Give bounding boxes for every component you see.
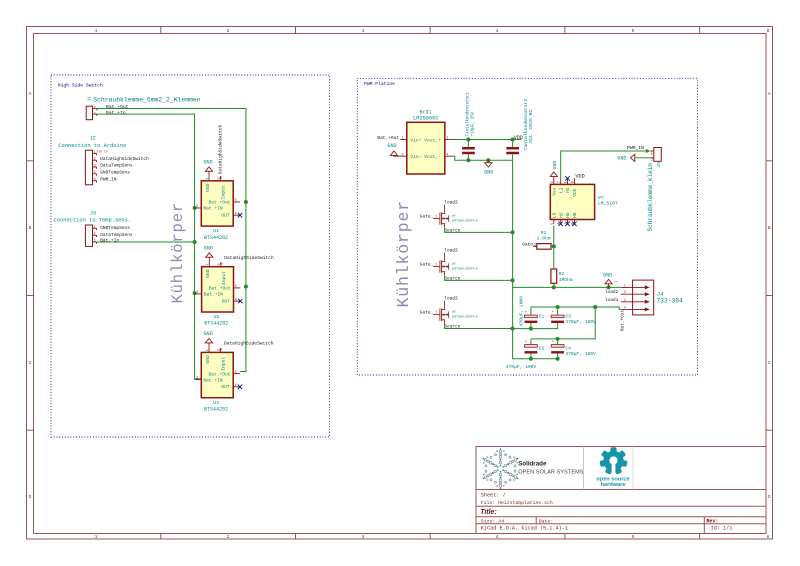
svg-text:Bat.+IN: Bat.+IN (203, 377, 223, 383)
junction dots caps (529, 327, 560, 361)
wire U5 source to rail (445, 277, 513, 281)
svg-text:SUP75N04_MOSFET-N: SUP75N04_MOSFET-N (452, 220, 478, 223)
svg-text:1: 1 (205, 264, 209, 266)
svg-text:D: D (29, 494, 32, 500)
svg-text:LI: LI (558, 187, 564, 193)
value BTS44202 U3 (204, 406, 228, 412)
connector J3 Connection to Temp.sens. (54, 210, 132, 246)
wire VDD rail top (452, 139, 522, 141)
label Bat.+Out (106, 104, 129, 110)
label load2 U5 (444, 248, 458, 254)
svg-text:4: 4 (94, 170, 96, 174)
svg-text:OPEN SOLAR SYSTEMS: OPEN SOLAR SYSTEMS (518, 469, 584, 475)
svg-text:GNDTempSens: GNDTempSens (100, 170, 130, 176)
no-connect U3 OUT (238, 385, 242, 389)
svg-text:HB: HB (572, 212, 578, 218)
svg-text:6: 6 (767, 534, 770, 540)
label Bat.+Out (vertical) (621, 310, 626, 331)
junction R1/LO (552, 244, 556, 248)
connector J2 Connection to Arduino (58, 135, 126, 184)
svg-text:1MOhm: 1MOhm (559, 277, 573, 283)
label DataHighSideSwitch U1 (218, 125, 224, 179)
svg-text:J3: J3 (90, 210, 96, 216)
svg-text:OUT: OUT (221, 213, 230, 219)
svg-text:5: 5 (632, 28, 635, 34)
svg-text:4: 4 (235, 297, 237, 301)
svg-text:2: 2 (219, 348, 223, 350)
svg-text:LM_5107: LM_5107 (598, 201, 618, 207)
svg-text:load2: load2 (605, 289, 619, 295)
no-connect U7 HS HO HB (559, 222, 577, 226)
svg-text:2: 2 (227, 534, 230, 540)
label GNDTempSens J3 (100, 225, 130, 231)
svg-text:2: 2 (94, 105, 96, 109)
svg-text:GND: GND (204, 160, 213, 166)
svg-text:Connection to Arduino: Connection to Arduino (58, 143, 126, 149)
transistor U5 SUP75N04_MOSFET-N (433, 253, 478, 277)
svg-text:Connection to Temp.sens.: Connection to Temp.sens. (54, 217, 132, 223)
svg-text:3: 3 (94, 238, 96, 242)
label DataHighSideSwitch U2 (220, 255, 275, 265)
svg-text:Gate_: Gate_ (420, 213, 434, 219)
reference U1 (213, 228, 219, 234)
svg-text:1: 1 (435, 263, 437, 267)
svg-text:4: 4 (235, 383, 237, 387)
label Source U6 (444, 324, 461, 330)
svg-text:GND: GND (205, 183, 211, 192)
value BTS44202 U1 (204, 235, 228, 241)
wire regulator return (452, 156, 513, 160)
svg-text:5: 5 (235, 198, 237, 202)
svg-text:D: D (768, 494, 771, 500)
svg-text:HS: HS (558, 212, 564, 218)
label Bat.+In J3 (100, 238, 119, 244)
label DataTempSens J2 (100, 163, 133, 169)
power GND U2 (204, 245, 213, 262)
label Gate_ U4 (420, 213, 434, 219)
svg-text:Vin+ Vout_+: Vin+ Vout_+ (410, 137, 441, 143)
junction dots Bat.+Out rail (556, 305, 598, 309)
svg-text:3: 3 (362, 534, 365, 540)
connector J4 733-364 (621, 280, 654, 315)
power GND J5 (617, 154, 650, 161)
svg-text:4: 4 (496, 534, 499, 540)
svg-text:2: 2 (94, 232, 96, 236)
svg-text:GND: GND (205, 355, 211, 364)
svg-text:BTS44202: BTS44202 (204, 321, 228, 327)
svg-text:1: 1 (402, 136, 404, 140)
wire C1 C3 bottom rail (513, 328, 558, 330)
svg-text:Bat.+Out: Bat.+Out (208, 371, 230, 377)
IC U1 BTS44202 (195, 176, 240, 226)
reference U7 (598, 195, 604, 201)
svg-text:Input: Input (221, 357, 227, 371)
svg-text:Bat.+In: Bat.+In (106, 110, 126, 116)
label load2 U6 (444, 296, 458, 302)
svg-text:C4: C4 (565, 345, 571, 351)
svg-text:1: 1 (614, 281, 618, 283)
label Gate_ U5 (420, 261, 434, 267)
svg-text:5: 5 (94, 177, 96, 181)
svg-text:5: 5 (235, 370, 237, 374)
svg-text:1.0hm: 1.0hm (537, 235, 551, 241)
svg-text:Bat.+Out: Bat.+Out (377, 135, 399, 141)
svg-text:PWM_IN: PWM_IN (627, 145, 644, 151)
svg-text:2: 2 (94, 157, 96, 161)
junction dots left (193, 200, 248, 295)
svg-text:U5: U5 (452, 263, 456, 266)
svg-text:3: 3 (196, 204, 198, 208)
svg-text:load2: load2 (444, 248, 458, 254)
svg-text:Tantalkondensator2: Tantalkondensator2 (523, 99, 529, 151)
svg-text:GNDTempSens: GNDTempSens (100, 225, 130, 231)
svg-text:A: A (768, 91, 771, 97)
label PWM_IN J2 (100, 176, 117, 182)
svg-text:4: 4 (446, 152, 448, 156)
svg-text:Gate_: Gate_ (522, 241, 536, 247)
svg-text:GND: GND (387, 143, 396, 149)
value 733-364 (656, 298, 683, 305)
svg-text:1: 1 (624, 283, 626, 287)
svg-text:JG3. 1026 B2: JG3. 1026 B2 (528, 109, 534, 144)
svg-text:4: 4 (496, 28, 499, 34)
svg-text:1: 1 (94, 150, 96, 154)
IC U3 BTS44202 (195, 348, 240, 398)
no-connect U7 HI (565, 176, 569, 180)
svg-text:U6: U6 (452, 311, 456, 314)
wire U6 source to rail (445, 325, 513, 329)
svg-text:Rev:: Rev: (706, 519, 718, 525)
svg-text:load2: load2 (444, 296, 458, 302)
svg-text:1: 1 (651, 152, 653, 156)
capacitor C1 470uF 100V (525, 307, 538, 329)
value C1 470µF,100V vertical (518, 296, 524, 327)
svg-text:3: 3 (402, 152, 404, 156)
wire Bat.+In net (97, 114, 201, 379)
svg-text:DataTempSens: DataTempSens (100, 232, 133, 238)
reference J5 (656, 162, 662, 168)
svg-text:A: A (29, 91, 32, 97)
svg-text:BTS44202: BTS44202 (204, 406, 228, 412)
svg-text:3: 3 (196, 290, 198, 294)
svg-text:Input: Input (221, 271, 227, 285)
resistor R1 1.0hm (533, 230, 554, 249)
sheet PWM Platine (357, 78, 697, 375)
svg-text:1: 1 (94, 111, 96, 115)
hierarchical pin PWM_IN arrow (646, 149, 650, 153)
resistor R2 1MOhm (551, 269, 573, 287)
svg-text:Bat.+Out: Bat.+Out (208, 200, 230, 206)
svg-text:R2: R2 (559, 271, 565, 277)
transistor U6 SUP75N04_MOSFET-N (433, 301, 478, 325)
power GND U3 (204, 331, 213, 348)
svg-text:Kühlkörper: Kühlkörper (394, 200, 413, 308)
svg-text:Date:: Date: (539, 519, 554, 525)
svg-text:VDD: VDD (572, 188, 578, 197)
value BTS44202 U2 (204, 321, 228, 327)
text Kühlkörper (right heatsink) (394, 200, 413, 308)
wire Bat.+Out to J4 pin4 (531, 307, 621, 309)
svg-text:J2: J2 (90, 135, 96, 141)
label load1 J4 (605, 297, 619, 303)
label VDD (top) (514, 135, 523, 141)
svg-text:470µF, 100V: 470µF, 100V (506, 364, 537, 370)
svg-text:Schraubklemme_klein: Schraubklemme_klein (647, 163, 654, 232)
junction U4 source (511, 230, 515, 234)
svg-text:6: 6 (767, 28, 770, 34)
svg-text:GND: GND (204, 245, 213, 251)
svg-text:1: 1 (95, 534, 98, 540)
svg-text:U3: U3 (213, 400, 219, 406)
svg-text:2: 2 (651, 158, 653, 162)
label Bat.+In (106, 110, 126, 116)
capacitor Tantalkondensator2 JG3.1026 B2 (506, 99, 534, 161)
junction C4 top (556, 337, 560, 341)
IC U7 LML5107 (550, 178, 595, 224)
svg-text:2: 2 (219, 177, 223, 179)
svg-text:PWM_IN: PWM_IN (100, 176, 117, 182)
capacitor C4 470uF 100V (551, 339, 564, 359)
svg-text:U4: U4 (452, 215, 456, 218)
svg-text:Bat.+In: Bat.+In (100, 238, 119, 244)
power GND J4 (603, 272, 618, 287)
svg-text:Title:: Title: (480, 509, 497, 516)
junction U5 source (511, 278, 515, 282)
svg-text:8: 8 (570, 181, 574, 183)
svg-text:4: 4 (624, 305, 626, 309)
svg-text:C: C (29, 360, 32, 366)
junction dots rail (552, 285, 611, 289)
svg-text:VDD: VDD (575, 173, 584, 179)
transistor U4 SUP75N04_MOSFET-N (433, 205, 478, 229)
svg-text:OUT: OUT (222, 299, 231, 305)
svg-text:B: B (29, 225, 32, 231)
svg-text:VDD: VDD (514, 135, 523, 141)
svg-text:U1: U1 (213, 228, 219, 234)
svg-text:SUP75N04_MOSFET-N: SUP75N04_MOSFET-N (452, 268, 478, 271)
svg-text:R1: R1 (541, 230, 547, 236)
svg-text:GND: GND (617, 155, 626, 161)
junction dots top (466, 138, 514, 163)
svg-text:C: C (768, 360, 771, 366)
label GNDTempSens J2 (100, 170, 130, 176)
svg-text:470µF, 100V: 470µF, 100V (518, 296, 524, 327)
capacitor Tantalkondensator1 +10uF 35V (462, 92, 475, 161)
svg-text:3: 3 (550, 181, 554, 183)
svg-text:3: 3 (94, 163, 96, 167)
svg-text:DataTempSens: DataTempSens (100, 163, 133, 169)
svg-text:B: B (768, 225, 771, 231)
power GND U7 Vss (550, 161, 558, 179)
svg-text:470µF, 100V: 470µF, 100V (565, 319, 596, 325)
label Gate_ R1 (522, 241, 536, 247)
wire U4 source to rail (445, 229, 513, 233)
text Kühlkörper (left heatsink) (169, 202, 187, 304)
svg-text:5: 5 (632, 534, 635, 540)
svg-text:Size: A4: Size: A4 (481, 519, 505, 525)
svg-text:5: 5 (235, 284, 237, 288)
label DataHighSideSwitch J2 (100, 156, 149, 162)
svg-text:Gate_: Gate_ (420, 261, 434, 267)
svg-text:2: 2 (446, 136, 448, 140)
IC U2 BTS44202 (195, 262, 240, 312)
svg-text:Tantalkondensator1: Tantalkondensator1 (466, 92, 471, 137)
label DataTempSens J3 (100, 232, 133, 238)
svg-text:File: Heizstabplatine.sch: File: Heizstabplatine.sch (481, 500, 553, 506)
svg-text:2: 2 (220, 263, 224, 265)
label VDD U7 (575, 173, 584, 179)
wire Bat.+Out net (97, 109, 246, 372)
label load2 J4 (605, 289, 619, 295)
svg-text:2: 2 (624, 290, 626, 294)
svg-text:Vss: Vss (551, 187, 557, 196)
svg-text:Gate_: Gate_ (420, 309, 434, 315)
value Schraubklemme_klein (647, 163, 654, 232)
svg-text:SUP75N04_MOSFET-N: SUP75N04_MOSFET-N (452, 316, 478, 319)
connector K1 Schraubklemme_6mm2_2_Klemmen (86, 96, 201, 119)
svg-text:GND: GND (484, 170, 493, 176)
svg-text:1: 1 (94, 225, 96, 229)
svg-text:load2: load2 (444, 200, 458, 206)
svg-text:1: 1 (435, 311, 437, 315)
svg-text:HI: HI (565, 187, 571, 193)
label load2 U4 (444, 200, 458, 206)
svg-text:1: 1 (205, 178, 209, 180)
svg-text:load1: load1 (605, 297, 619, 303)
svg-text:HO: HO (565, 212, 571, 218)
capacitor C2 470uF 100V (525, 339, 538, 359)
svg-text:Kühlkörper: Kühlkörper (169, 202, 187, 304)
wire main GND rail vertical (513, 160, 558, 359)
label Source U4 (444, 228, 461, 234)
capacitor C3 470uF 100V (551, 307, 564, 329)
svg-text:Bat.+Out: Bat.+Out (209, 286, 231, 292)
svg-text:1: 1 (564, 181, 568, 183)
svg-text:1: 1 (95, 28, 98, 34)
svg-text:Sheet: /: Sheet: / (481, 493, 506, 499)
svg-text:+10µF, 35V: +10µF, 35V (472, 111, 476, 136)
svg-text:KiCad E.D.A. kicad (5.1.4)-1: KiCad E.D.A. kicad (5.1.4)-1 (481, 525, 568, 531)
svg-text:DataHighSideSwitch: DataHighSideSwitch (224, 255, 274, 261)
svg-text:Bat.+IN: Bat.+IN (203, 206, 223, 212)
svg-text:1: 1 (205, 349, 209, 351)
svg-text:Schraubklemme_6mm2_2_Klemmen: Schraubklemme_6mm2_2_Klemmen (93, 96, 201, 103)
no-connect U1 OUT (238, 213, 242, 217)
svg-text:5: 5 (550, 223, 554, 225)
svg-text:733-364: 733-364 (656, 298, 683, 305)
svg-text:3: 3 (196, 376, 198, 380)
sheet name PWM Platine (364, 81, 395, 87)
svg-text:C3: C3 (565, 313, 571, 319)
svg-text:Solidrade: Solidrade (518, 461, 547, 468)
svg-text:GND: GND (603, 272, 612, 278)
svg-text:BTS44202: BTS44202 (204, 235, 228, 241)
svg-text:LO: LO (551, 212, 557, 218)
label PWM_IN (627, 145, 644, 151)
power GND Brd1 (387, 143, 400, 156)
svg-text:PWM Platine: PWM Platine (364, 81, 395, 87)
svg-text:2: 2 (557, 181, 561, 183)
wire J3 Bat.+In (97, 241, 195, 243)
label Earth (97, 149, 108, 154)
svg-text:J5: J5 (656, 162, 662, 168)
svg-text:Input: Input (221, 185, 227, 199)
wire riser C2/C4 row (531, 307, 595, 339)
sheet name High Side Switch (58, 83, 103, 89)
svg-text:Bat.+Out: Bat.+Out (621, 310, 626, 331)
svg-text:1: 1 (435, 215, 437, 219)
svg-text:GND: GND (205, 269, 211, 278)
svg-text:GND: GND (552, 161, 558, 170)
svg-text:4: 4 (235, 211, 237, 215)
svg-text:3: 3 (362, 28, 365, 34)
power GND U1 (204, 160, 213, 177)
svg-text:hardware: hardware (601, 482, 626, 488)
value LML5107 (598, 201, 618, 207)
label Source U5 (444, 276, 461, 282)
wire LI to PWM_IN (561, 151, 646, 178)
connector J5 Schraubklemme_klein (650, 148, 661, 163)
svg-text:Earth: Earth (97, 149, 108, 154)
svg-text:C1: C1 (539, 313, 545, 319)
label DataHighSideSwitch U3 (219, 341, 274, 351)
reference U3 (213, 400, 219, 406)
svg-text:LM25960C: LM25960C (413, 116, 438, 122)
svg-text:High Side Switch: High Side Switch (58, 83, 103, 89)
power GND rail tap (484, 160, 493, 175)
svg-text:GND: GND (204, 331, 213, 337)
label Gate_ U6 (420, 309, 434, 315)
svg-text:U2: U2 (214, 314, 220, 320)
svg-text:470µF, 100V: 470µF, 100V (565, 351, 596, 357)
svg-text:2: 2 (227, 28, 230, 34)
wire GND rail to J4 (513, 286, 621, 288)
svg-text:DataHighSideSwitch: DataHighSideSwitch (100, 156, 149, 162)
svg-text:Vin- Vout_-: Vin- Vout_- (410, 154, 440, 160)
reference J4 (657, 292, 663, 298)
regulator Brd1 LM25960C (400, 110, 451, 174)
reference U2 (214, 314, 220, 320)
svg-text:OUT: OUT (221, 384, 230, 390)
no-connect U2 OUT (238, 299, 242, 303)
junction U6 source (511, 327, 515, 331)
value C2 470µF,100V (506, 364, 537, 370)
wire LO to R2 (553, 226, 555, 270)
svg-text:3: 3 (624, 298, 626, 302)
svg-text:C2: C2 (539, 345, 545, 351)
svg-text:DataHighSideSwitch: DataHighSideSwitch (218, 125, 224, 175)
svg-text:Bat.+IN: Bat.+IN (204, 292, 224, 298)
svg-text:U7: U7 (598, 195, 604, 201)
svg-text:DataHighSideSwitch: DataHighSideSwitch (224, 341, 274, 347)
sheet High Side Switch (51, 75, 330, 437)
svg-text:Id: 1/1: Id: 1/1 (711, 525, 733, 531)
label Bat.+Out (Brd1 input) (377, 135, 399, 141)
